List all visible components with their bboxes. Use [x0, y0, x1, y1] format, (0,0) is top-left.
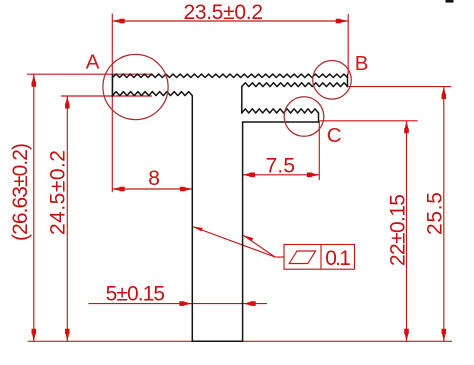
svg-text:25.5: 25.5	[424, 192, 447, 235]
svg-text:8: 8	[148, 167, 160, 190]
dim line 22±0.15	[406, 121, 408, 341]
detail circle A	[103, 54, 168, 119]
detail circle C	[284, 97, 324, 137]
web bottom edge	[192, 340, 242, 342]
bottom datum extension line	[28, 340, 452, 342]
dim 24.5 top extension	[61, 95, 152, 97]
svg-text:22±0.15: 22±0.15	[387, 194, 410, 266]
leader to web right face	[243, 235, 275, 257]
svg-text:B: B	[355, 52, 369, 75]
dim line 8	[112, 188, 192, 190]
leader to web left face	[192, 227, 275, 258]
feature control frame	[284, 245, 355, 270]
dim line 26.63	[33, 74, 35, 341]
svg-text:A: A	[86, 50, 100, 73]
dim 26.63 top extension	[27, 73, 152, 75]
dim line 25.5	[443, 87, 445, 342]
fin bottom edge	[243, 121, 319, 123]
dim line 7.5	[243, 174, 320, 176]
dim 23.5 extension line left	[111, 14, 113, 193]
flange right edge	[347, 75, 349, 87]
flange left edge	[112, 75, 114, 97]
cropped black mark top right	[446, 0, 454, 3]
svg-text:0.1: 0.1	[325, 247, 351, 270]
slot left edge	[241, 87, 243, 113]
leader stub	[275, 256, 284, 258]
fin serrated top	[242, 109, 319, 113]
left flange serrated underside	[113, 92, 193, 96]
detail circle B	[313, 61, 352, 100]
dim line 23.5	[112, 20, 348, 22]
dim line 24.5	[66, 96, 68, 341]
fin right edge	[318, 113, 320, 122]
web left edge	[191, 96, 193, 342]
dim 23.5 extension line right	[347, 14, 349, 75]
svg-text:5±0.15: 5±0.15	[106, 283, 166, 306]
flatness/parallelogram symbol	[289, 251, 315, 264]
web right edge	[242, 122, 244, 341]
top serrated surface of flange	[113, 74, 348, 78]
svg-text:24.5±0.2: 24.5±0.2	[47, 150, 70, 235]
dim 25.5 extension	[349, 86, 452, 88]
svg-text:7.5: 7.5	[266, 155, 296, 178]
svg-text:C: C	[327, 124, 342, 147]
right flange serrated underside	[242, 83, 348, 87]
dim 22 extension	[320, 120, 418, 122]
dim line 5±0.15	[89, 303, 268, 305]
dim 7.5 right extension	[318, 121, 320, 181]
svg-text:23.5±0.2: 23.5±0.2	[184, 1, 264, 24]
svg-text:(26.63±0.2): (26.63±0.2)	[9, 143, 32, 241]
